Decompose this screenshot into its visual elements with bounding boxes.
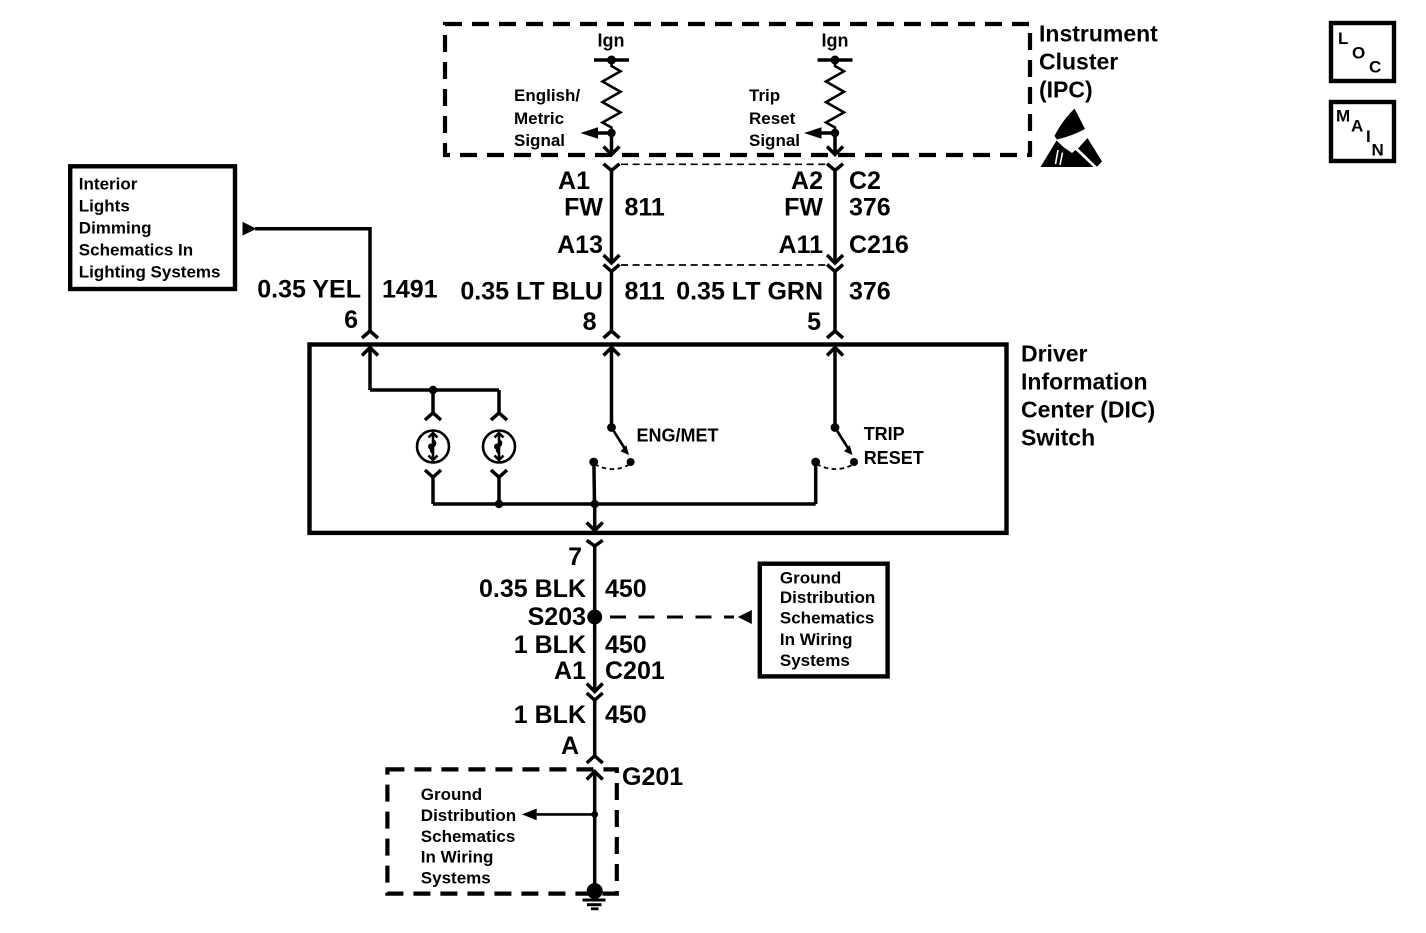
resistor (English/Metric pull-up) (603, 60, 621, 133)
svg-text:Ign: Ign (598, 31, 625, 51)
svg-text:A1: A1 (558, 167, 590, 195)
connector chevron at G201 (587, 756, 603, 763)
node junction pin 7 on bus (591, 500, 599, 508)
svg-text:Instrument: Instrument (1039, 20, 1158, 46)
wire left resistor output down with arrow (610, 133, 614, 154)
wire Trip Reset signal stub with arrow (821, 131, 836, 135)
svg-text:RESET: RESET (864, 448, 924, 468)
svg-text:Lighting Systems: Lighting Systems (79, 263, 221, 282)
connector C201 arrow (587, 684, 603, 692)
svg-text:Schematics: Schematics (780, 608, 875, 627)
node junction at right resistor bottom (831, 129, 839, 137)
node junction lamp 2 on bus (495, 500, 503, 508)
svg-text:450: 450 (605, 631, 647, 659)
svg-text:811: 811 (625, 194, 665, 222)
svg-text:1 BLK: 1 BLK (514, 631, 586, 659)
svg-text:A: A (561, 732, 579, 760)
wire lamp 2 to bus (497, 477, 501, 504)
svg-text:TRIP: TRIP (864, 424, 905, 444)
wire pin 8 entry arrow inside DIC (604, 348, 620, 356)
svg-text:Distribution: Distribution (421, 806, 516, 825)
LOC page marker box (1331, 23, 1394, 81)
svg-text:FW: FW (784, 194, 823, 222)
ground G201 symbol (583, 883, 606, 909)
splice S203 (587, 610, 602, 625)
connector dashed link bottom (621, 264, 826, 266)
wire TRIP RESET common to bus (814, 462, 818, 504)
svg-text:Ign: Ign (822, 31, 849, 51)
svg-text:In Wiring: In Wiring (780, 630, 853, 649)
ESD sensitivity symbol (1041, 109, 1103, 168)
wire drop to lamp 1 (431, 390, 435, 413)
svg-text:Lights: Lights (79, 197, 130, 216)
svg-text:C201: C201 (605, 657, 665, 685)
svg-text:0.35 YEL: 0.35 YEL (257, 276, 361, 304)
wire dashed reference to ground distribution (610, 616, 734, 619)
svg-text:450: 450 (605, 575, 647, 603)
MAIN page marker box (1331, 102, 1394, 161)
svg-text:Switch: Switch (1021, 424, 1095, 450)
connector chevron lamp 2 bottom (491, 470, 507, 477)
svg-text:A2: A2 (791, 167, 823, 195)
wire 811 LT BLU segment (IPC to C216) (610, 171, 614, 263)
lamp 1 (illumination bulb) (417, 431, 449, 463)
connector chevron A11 (827, 265, 843, 272)
svg-text:C216: C216 (849, 231, 909, 259)
svg-text:Metric: Metric (514, 109, 564, 128)
svg-text:376: 376 (849, 278, 891, 306)
svg-text:L: L (1338, 29, 1348, 48)
wire 376 LT GRN segment (IPC to C216) (833, 171, 837, 263)
svg-text:Center (DIC): Center (DIC) (1021, 396, 1155, 422)
Driver Information Center (DIC) Switch box (310, 345, 1007, 533)
Ground Distribution reference box (solid) (760, 564, 888, 677)
connector chevron lamp 1 top (425, 413, 441, 420)
svg-text:Ground: Ground (421, 785, 482, 804)
connector chevron at DIC pin 8 (604, 331, 620, 338)
svg-text:Distribution: Distribution (780, 588, 875, 607)
svg-text:C: C (1369, 58, 1381, 77)
connector chevron at DIC pin 5 (827, 331, 843, 338)
Interior Lights Dimming reference box (70, 166, 235, 289)
svg-text:Signal: Signal (514, 131, 565, 150)
svg-text:A13: A13 (557, 231, 603, 259)
svg-text:811: 811 (625, 278, 665, 306)
G201 ground reference dashed box (387, 769, 616, 893)
svg-text:(IPC): (IPC) (1039, 76, 1093, 102)
svg-text:S203: S203 (528, 603, 586, 631)
switch ENG/MET (589, 423, 634, 469)
svg-text:Dimming: Dimming (79, 219, 152, 238)
connector dashed link top (621, 163, 826, 165)
svg-text:450: 450 (605, 701, 647, 729)
lamp 2 (illumination bulb) (483, 431, 515, 463)
wire pin 6 entry arrow inside DIC (362, 348, 378, 356)
node junction ground reference tap (591, 811, 598, 818)
svg-text:1491: 1491 (382, 276, 438, 304)
svg-text:A1: A1 (554, 657, 586, 685)
arrow from Interior Lights box (243, 222, 257, 236)
svg-text:Information: Information (1021, 368, 1148, 394)
wire lamp 1 to bus (431, 477, 435, 504)
connector chevron at DIC pin 6 (362, 331, 378, 338)
svg-text:Interior: Interior (79, 175, 138, 194)
svg-text:Systems: Systems (780, 651, 850, 670)
svg-text:I: I (1366, 127, 1371, 146)
svg-text:C2: C2 (849, 167, 881, 195)
svg-text:Systems: Systems (421, 869, 491, 888)
svg-text:English/: English/ (514, 86, 580, 105)
wire drop to lamp 2 (497, 390, 501, 413)
connector chevron C201 (587, 693, 603, 700)
svg-text:8: 8 (583, 308, 597, 336)
node junction lamp 1 feed (429, 386, 437, 394)
svg-text:Reset: Reset (749, 109, 796, 128)
svg-text:G201: G201 (622, 763, 683, 791)
svg-text:6: 6 (344, 306, 358, 334)
wire Ign terminal bar right (818, 58, 853, 62)
Instrument Cluster (IPC) dashed box (445, 24, 1030, 155)
connector chevron below pin 7 (587, 540, 603, 546)
svg-text:In Wiring: In Wiring (421, 848, 494, 867)
svg-text:M: M (1336, 107, 1350, 126)
wire pin 5 entry arrow inside DIC (827, 348, 843, 356)
connector chevron at IPC bottom, pin A2 (827, 164, 843, 171)
svg-text:0.35 LT BLU: 0.35 LT BLU (460, 278, 603, 306)
resistor (Trip Reset pull-up) (826, 60, 844, 133)
svg-text:N: N (1372, 141, 1384, 160)
svg-text:Schematics In: Schematics In (79, 241, 193, 260)
wire pin 7 exit with arrow (593, 504, 597, 530)
svg-text:376: 376 (849, 194, 891, 222)
wire G201 entry arrow (587, 772, 603, 780)
wire ENG/MET common to bus (592, 462, 596, 504)
connector chevron lamp 1 bottom (425, 470, 441, 477)
svg-text:0.35 BLK: 0.35 BLK (479, 575, 586, 603)
svg-text:Ground: Ground (780, 569, 841, 588)
wire 0.35 YEL 1491 (255, 229, 370, 331)
wire Ign terminal bar left (594, 58, 629, 62)
svg-text:7: 7 (568, 543, 582, 571)
svg-text:Signal: Signal (749, 131, 800, 150)
wire 1 BLK 450 lower (593, 700, 597, 755)
wire English/Metric signal stub with arrow (597, 131, 612, 135)
switch TRIP RESET (811, 423, 858, 469)
svg-text:Schematics: Schematics (421, 827, 516, 846)
svg-text:A: A (1351, 117, 1363, 136)
wire LT BLU lower segment to DIC pin 8 (610, 271, 614, 330)
wire lamp feed horizontal (370, 388, 499, 392)
svg-text:ENG/MET: ENG/MET (637, 426, 719, 446)
svg-text:O: O (1352, 44, 1365, 63)
svg-text:Driver: Driver (1021, 340, 1088, 366)
svg-text:0.35 LT GRN: 0.35 LT GRN (676, 278, 823, 306)
wire 0.35 BLK 450 (593, 546, 597, 691)
connector chevron at IPC bottom, pin A1 (604, 164, 620, 171)
wire to ground distribution arrow (537, 813, 595, 816)
svg-text:Trip: Trip (749, 86, 780, 105)
wire LT GRN lower segment to DIC pin 5 (833, 271, 837, 330)
connector chevron A13 (604, 265, 620, 272)
svg-text:FW: FW (564, 194, 603, 222)
wire right resistor output down with arrow (833, 133, 837, 154)
node junction at resistor bottom left (607, 129, 615, 137)
svg-text:5: 5 (807, 308, 821, 336)
wire ground bus inside DIC (433, 502, 816, 506)
svg-text:A11: A11 (779, 231, 824, 259)
svg-text:1 BLK: 1 BLK (514, 701, 586, 729)
svg-text:Cluster: Cluster (1039, 48, 1118, 74)
connector chevron lamp 2 top (491, 413, 507, 420)
